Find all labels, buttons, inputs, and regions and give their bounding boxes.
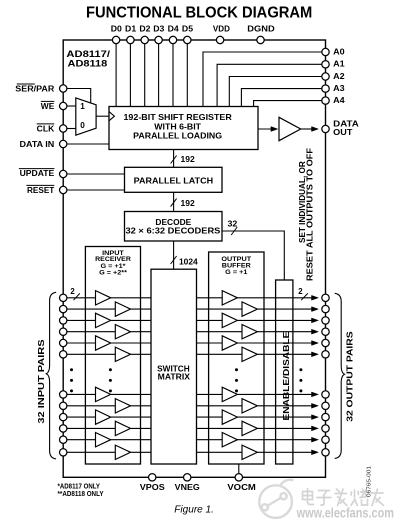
bus width slash 192	[171, 156, 177, 164]
block switch matrix	[151, 269, 197, 464]
wire A3	[241, 89, 322, 107]
wire switch matrix to output buffer 9	[197, 416, 223, 418]
annotation set individual or reset all outputs to off	[298, 161, 307, 243]
pin RESET	[60, 186, 67, 193]
svg-text:32: 32	[228, 219, 238, 229]
svg-text:D1: D1	[125, 25, 137, 34]
amplifier output buffer 9	[222, 410, 237, 424]
pin output pair 2	[322, 305, 329, 312]
wire input 9 to receiver	[67, 416, 96, 418]
pin output pair 6	[322, 351, 329, 358]
overline WE	[41, 100, 55, 102]
svg-text:32 OUTPUT PAIRS: 32 OUTPUT PAIRS	[346, 331, 355, 422]
wire input 12 to receiver	[67, 451, 116, 453]
svg-text:www.elecfans.com: www.elecfans.com	[296, 505, 394, 520]
pin A4	[322, 97, 329, 104]
amplifier input receiver 2	[115, 302, 130, 316]
amplifier input receiver 1	[96, 291, 111, 305]
pin VOCM	[235, 474, 242, 481]
svg-text:32 INPUT PAIRS: 32 INPUT PAIRS	[37, 339, 46, 424]
wire input 6 to receiver	[67, 353, 116, 355]
pin A3	[322, 85, 329, 92]
pin input pair 11	[60, 436, 67, 443]
svg-text:G = +2**: G = +2**	[99, 270, 127, 277]
pin DATA IN	[60, 140, 67, 147]
wire input 1 to receiver	[67, 297, 96, 299]
wire input 4 to receiver	[67, 331, 116, 333]
pin D3	[155, 36, 162, 43]
amplifier input receiver 4	[115, 325, 130, 339]
ellipsis dots buffer column	[235, 368, 238, 371]
wire D5 vertical	[186, 40, 188, 107]
pin input pair 3	[60, 317, 67, 324]
wire output buffer 11 to output pin	[237, 439, 312, 441]
wire output buffer 3 to output pin	[237, 319, 312, 321]
svg-text:VNEG: VNEG	[175, 483, 200, 492]
svg-text:UPDATE: UPDATE	[20, 169, 55, 178]
overline CLK	[37, 123, 55, 125]
svg-text:CLK: CLK	[37, 124, 55, 133]
label enable/disable rotated	[282, 331, 291, 421]
amplifier input receiver 12	[115, 445, 130, 459]
svg-text:VOCM: VOCM	[227, 483, 256, 492]
ellipsis dots output column	[299, 368, 302, 371]
wire UPDATE to parallel latch	[67, 173, 125, 175]
pin input pair 1	[60, 294, 67, 301]
amplifier output buffer 1	[222, 291, 237, 305]
arrowhead output 2	[312, 307, 319, 312]
svg-text:VPOS: VPOS	[140, 483, 166, 492]
wire receiver 8 to switch matrix	[131, 405, 152, 407]
wire switch matrix to output buffer 1	[197, 297, 223, 299]
svg-text:192: 192	[181, 198, 196, 208]
wire mux output to shift register clock	[96, 115, 109, 117]
wire RESET to parallel latch	[67, 189, 125, 191]
amplifier output buffer 4	[242, 325, 257, 339]
pin D5	[184, 36, 191, 43]
amplifier input receiver 5	[96, 336, 111, 350]
pin output pair 10	[322, 425, 329, 432]
overline UPDATE	[19, 168, 55, 170]
arrowhead output 5	[312, 341, 319, 346]
arrowhead into driver	[271, 127, 278, 132]
pin A2	[322, 73, 329, 80]
svg-text:**AD8118 ONLY: **AD8118 ONLY	[58, 491, 104, 498]
svg-text:192: 192	[181, 154, 196, 164]
wire D3 vertical	[158, 40, 160, 107]
buffer amplifier DATA OUT driver	[279, 117, 301, 140]
pin VPOS	[149, 474, 156, 481]
pin input pair 5	[60, 339, 67, 346]
amplifier output buffer 5	[222, 336, 237, 350]
wire receiver 2 to switch matrix	[131, 308, 152, 310]
block enable/disable	[276, 280, 293, 464]
pin DATA OUT	[322, 125, 329, 132]
svg-text:*AD8117 ONLY: *AD8117 ONLY	[58, 484, 101, 491]
wire receiver 4 to switch matrix	[131, 331, 152, 333]
pin output pair 12	[322, 449, 329, 456]
wire input 7 to receiver	[67, 393, 96, 395]
pin D0	[112, 36, 119, 43]
wire output buffer 12 to output pin	[257, 451, 312, 453]
pin UPDATE	[60, 170, 67, 177]
pin VNEG	[184, 474, 191, 481]
wire switch matrix to output buffer 11	[197, 439, 223, 441]
wire input 11 to receiver	[67, 439, 96, 441]
clock wedge	[109, 112, 114, 121]
bus decode to enable/disable	[222, 231, 284, 280]
pin DGND	[257, 36, 264, 43]
amplifier input receiver 3	[96, 313, 111, 327]
arrowhead output 6	[312, 352, 319, 357]
bus slash input pair	[74, 293, 80, 300]
wire D1 vertical	[129, 40, 131, 107]
block input receiver	[85, 247, 140, 465]
outer boundary box	[63, 40, 325, 477]
svg-text:PARALLEL LOADING: PARALLEL LOADING	[133, 131, 222, 140]
svg-text:1: 1	[80, 102, 85, 111]
wire switch matrix to output buffer 12	[197, 451, 243, 453]
pin input pair 10	[60, 425, 67, 432]
svg-text:A0: A0	[333, 47, 345, 56]
overline SER	[17, 83, 35, 85]
wire receiver 5 to switch matrix	[111, 342, 151, 344]
block decode 32x6:32	[125, 212, 223, 242]
amplifier input receiver 6	[115, 347, 130, 361]
svg-text:WITH 6-BIT: WITH 6-BIT	[154, 122, 201, 131]
brace 32 input pairs	[46, 292, 56, 459]
pin input pair 6	[60, 351, 67, 358]
wire output buffer 2 to output pin	[257, 308, 312, 310]
wire CLK to mux input 0	[67, 128, 76, 130]
svg-text:SER/PAR: SER/PAR	[15, 84, 54, 93]
amplifier output buffer 7	[222, 387, 237, 401]
wire switch matrix to output buffer 3	[197, 319, 223, 321]
wire switch matrix to output buffer 5	[197, 342, 223, 344]
wire SER/PAR to mux select	[67, 89, 91, 103]
wire output buffer 9 to output pin	[237, 416, 312, 418]
wire output buffer 8 to output pin	[257, 405, 312, 407]
pin input pair 2	[60, 305, 67, 312]
ellipsis dots input column	[70, 368, 73, 371]
svg-text:Figure 1.: Figure 1.	[174, 505, 214, 516]
pin output pair 4	[322, 328, 329, 335]
wire D0 vertical	[115, 40, 117, 107]
wire receiver 10 to switch matrix	[131, 427, 152, 429]
svg-text:DGND: DGND	[247, 25, 275, 34]
svg-text:D2: D2	[139, 25, 151, 34]
bus decode to switch matrix	[173, 241, 175, 269]
svg-text:1024: 1024	[179, 256, 198, 266]
svg-text:06765-001: 06765-001	[366, 466, 372, 497]
svg-text:0: 0	[80, 121, 85, 130]
svg-text:ENABLE/DISABLE: ENABLE/DISABLE	[282, 331, 291, 421]
amplifier output buffer 12	[242, 445, 257, 459]
pin output pair 3	[322, 317, 329, 324]
bus shift register to latch	[173, 150, 175, 168]
label 32 output pairs	[346, 331, 355, 422]
svg-text:32 × 6:32 DECODERS: 32 × 6:32 DECODERS	[126, 226, 221, 236]
bus slash output pair	[301, 293, 308, 300]
wire receiver 9 to switch matrix	[111, 416, 151, 418]
wire receiver 11 to switch matrix	[111, 439, 151, 441]
brace 32 output pairs	[335, 293, 345, 458]
wire receiver 3 to switch matrix	[111, 319, 151, 321]
arrowhead output 11	[312, 437, 319, 442]
wire input 5 to receiver	[67, 342, 96, 344]
wire A2	[229, 77, 322, 107]
wire switch matrix to output buffer 7	[197, 393, 223, 395]
wire receiver 12 to switch matrix	[131, 451, 152, 453]
svg-text:A4: A4	[333, 96, 345, 105]
amplifier input receiver 9	[96, 410, 111, 424]
pin WE	[60, 102, 67, 109]
wire receiver 1 to switch matrix	[111, 297, 151, 299]
pin input pair 7	[60, 391, 67, 398]
arrowhead output 12	[312, 450, 319, 455]
svg-text:OUT: OUT	[333, 128, 352, 137]
svg-text:A3: A3	[333, 84, 345, 93]
wire input 2 to receiver	[67, 308, 116, 310]
svg-text:MATRIX: MATRIX	[158, 372, 191, 381]
pin input pair 12	[60, 449, 67, 456]
wire switch matrix to output buffer 4	[197, 331, 243, 333]
svg-text:RESET ALL OUTPUTS TO OFF: RESET ALL OUTPUTS TO OFF	[306, 148, 315, 281]
pin output pair 9	[322, 413, 329, 420]
bus width slash 192	[171, 199, 177, 207]
watermark chinese text 电子发烧友	[303, 489, 384, 506]
wire A1	[217, 64, 322, 106]
amplifier input receiver 8	[115, 399, 130, 413]
amplifier input receiver 10	[115, 421, 130, 435]
amplifier input receiver 11	[96, 433, 111, 447]
pin input pair 4	[60, 328, 67, 335]
wire receiver 6 to switch matrix	[131, 353, 152, 355]
svg-text:DATA IN: DATA IN	[20, 140, 55, 149]
pin output pair 5	[322, 339, 329, 346]
svg-text:WE: WE	[41, 102, 55, 111]
mux 2:1 select	[76, 98, 96, 135]
arrowhead output 4	[312, 329, 319, 334]
wire WE to mux input 1	[67, 105, 76, 107]
svg-text:G = +1: G = +1	[225, 269, 247, 276]
wire switch matrix to output buffer 2	[197, 308, 243, 310]
svg-text:VDD: VDD	[213, 25, 230, 34]
pin VDD	[216, 36, 223, 43]
wire D4 vertical	[172, 40, 174, 107]
svg-text:2: 2	[70, 287, 75, 296]
svg-text:2: 2	[298, 287, 303, 296]
wire A0	[203, 52, 322, 107]
label 32 input pairs	[37, 339, 46, 424]
block 192-bit shift register	[109, 107, 258, 150]
pin SER/PAR	[60, 85, 67, 92]
wire switch matrix to output buffer 8	[197, 405, 243, 407]
pin CLK	[60, 125, 67, 132]
svg-text:A2: A2	[333, 72, 345, 81]
amplifier output buffer 3	[222, 313, 237, 327]
arrowhead output 1	[312, 295, 319, 300]
amplifier output buffer 11	[222, 433, 237, 447]
svg-text:RESET: RESET	[27, 186, 55, 195]
arrowhead output 9	[312, 415, 319, 420]
wire A4	[254, 101, 322, 107]
wire output buffer 6 to output pin	[257, 353, 312, 355]
pin D2	[141, 36, 148, 43]
wire DATA IN to shift register	[67, 143, 109, 145]
pin D4	[169, 36, 176, 43]
amplifier input receiver 7	[96, 387, 111, 401]
pin A0	[322, 48, 329, 55]
wire output buffer 5 to output pin	[237, 342, 312, 344]
wire driver to DATA OUT pin	[301, 128, 312, 130]
pin output pair 8	[322, 402, 329, 409]
wire input 8 to receiver	[67, 405, 116, 407]
wire output buffer 4 to output pin	[257, 331, 312, 333]
amplifier output buffer 2	[242, 302, 257, 316]
watermark logo circle	[259, 480, 293, 518]
amplifier output buffer 6	[242, 347, 257, 361]
bus width slash 32	[231, 227, 237, 235]
svg-text:D0: D0	[111, 25, 123, 34]
svg-text:D3: D3	[153, 25, 165, 34]
svg-text:FUNCTIONAL BLOCK DIAGRAM: FUNCTIONAL BLOCK DIAGRAM	[86, 4, 312, 21]
wire input 3 to receiver	[67, 319, 96, 321]
svg-text:D4: D4	[168, 25, 180, 34]
svg-text:AD8118: AD8118	[68, 58, 108, 69]
wire D2 vertical	[144, 40, 146, 107]
wire output buffer 1 to output pin	[237, 297, 312, 299]
figure code 06765-001	[366, 466, 372, 497]
block parallel latch	[125, 167, 223, 192]
svg-text:DATA: DATA	[333, 119, 359, 128]
overline RESET	[26, 184, 54, 186]
svg-text:A1: A1	[333, 60, 345, 69]
svg-text:192-BIT SHIFT REGISTER: 192-BIT SHIFT REGISTER	[123, 113, 231, 122]
wire output buffer 7 to output pin	[237, 393, 312, 395]
arrowhead output 3	[312, 318, 319, 323]
block output buffer	[209, 252, 264, 464]
pin D1	[127, 36, 134, 43]
arrowhead output 8	[312, 403, 319, 408]
wire shift register to output driver	[258, 128, 275, 130]
bus width slash 1024	[171, 256, 177, 264]
pin input pair 8	[60, 402, 67, 409]
wire switch matrix to output buffer 6	[197, 353, 243, 355]
wire switch matrix to output buffer 10	[197, 427, 243, 429]
amplifier output buffer 8	[242, 399, 257, 413]
pin output pair 7	[322, 391, 329, 398]
wire output buffer 10 to output pin	[257, 427, 312, 429]
pin output pair 11	[322, 436, 329, 443]
wire receiver 7 to switch matrix	[111, 393, 151, 395]
svg-text:PARALLEL LATCH: PARALLEL LATCH	[134, 176, 213, 186]
ellipsis dots receiver column	[109, 368, 112, 371]
wire VOCM to output buffer	[238, 464, 240, 474]
arrowhead output 10	[312, 426, 319, 431]
pin output pair 1	[322, 294, 329, 301]
pin input pair 9	[60, 413, 67, 420]
bus latch to decode	[173, 192, 175, 211]
pin A1	[322, 61, 329, 68]
wire input 10 to receiver	[67, 427, 116, 429]
arrowhead output 7	[312, 392, 319, 397]
arrowhead into DATA OUT	[312, 127, 319, 132]
amplifier output buffer 10	[242, 421, 257, 435]
svg-text:D5: D5	[182, 25, 194, 34]
